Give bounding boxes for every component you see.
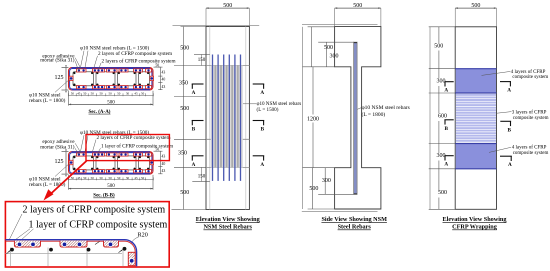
Sec A-A top groove 1 steel rebar dots	[78, 69, 80, 71]
Sec A-A bottom groove 4 steel rebar dots	[120, 86, 122, 88]
svg-text:45: 45	[134, 92, 138, 96]
Sec B-B bottom NSM groove 3 (epoxy mortar)	[107, 170, 118, 173]
elevation view 150 offset dim (top)	[194, 54, 210, 56]
Sec A-A bottom groove 6 steel rebar dots	[147, 86, 149, 88]
Sec B-B cell 3 corner rebars	[118, 156, 120, 158]
svg-text:mortar (Sika 31): mortar (Sika 31)	[40, 144, 75, 151]
side view top width dim 500	[335, 7, 381, 9]
detail zoom box (red) on section B-B	[86, 135, 169, 161]
detail groove 3 NSM rebar(s)	[108, 242, 113, 247]
svg-text:rebars (L = 1800): rebars (L = 1800)	[29, 97, 66, 104]
Sec B-B bottom NSM groove 4 (epoxy mortar)	[119, 170, 128, 173]
svg-text:43: 43	[162, 169, 166, 173]
svg-text:50: 50	[126, 92, 130, 96]
side view bottom dim ticks	[303, 167, 335, 169]
wrap callout leader (lower)	[489, 147, 511, 152]
svg-text:A: A	[260, 90, 264, 96]
svg-text:A: A	[508, 162, 512, 168]
Sec B-B bottom groove 3 steel rebar dots	[108, 170, 110, 172]
svg-text:500: 500	[180, 190, 189, 196]
wrap view CFRP hatched band middle (3 layers)	[456, 94, 496, 96]
Sec A-A bottom NSM groove 3 (epoxy mortar)	[107, 86, 118, 89]
svg-text:500: 500	[223, 3, 232, 9]
svg-text:50: 50	[83, 92, 87, 96]
svg-text:50: 50	[99, 176, 103, 180]
Sec A-A left side NSM groove	[69, 76, 73, 80]
svg-text:(L = 1800): (L = 1800)	[362, 111, 386, 118]
elevation view left dim chain line	[183, 27, 185, 210]
elevation view top width dim 500	[206, 7, 249, 9]
svg-text:A: A	[444, 88, 448, 94]
svg-text:43: 43	[162, 154, 166, 158]
Sec B-B top groove 3 steel rebar dots	[108, 153, 110, 155]
section cut flag A (wrap right, upper)	[500, 81, 511, 83]
svg-text:50: 50	[71, 176, 75, 180]
Sec A-A stirrup cell 1	[73, 72, 94, 86]
Sec A-A bottom NSM groove 1 (epoxy mortar)	[77, 86, 87, 89]
svg-text:500: 500	[180, 46, 189, 52]
wrap callout leader (upper)	[482, 71, 511, 75]
leader line to left side rebar (A-A)	[55, 79, 70, 92]
svg-text:500: 500	[107, 184, 115, 189]
Sec B-B bottom groove 4 steel rebar dots	[120, 170, 122, 172]
elevation view NSM steel rebars (blue, L=1500)	[212, 55, 214, 181]
section cut flag A (wrap left, lower)	[444, 155, 453, 157]
Sec B-B bottom NSM groove 5 (epoxy mortar)	[134, 170, 143, 173]
Sec A-A bottom NSM groove 6 (epoxy mortar)	[146, 86, 152, 89]
Sec B-B bottom NSM groove 1 (epoxy mortar)	[77, 170, 87, 173]
red arrow from zoom box to detail box	[50, 161, 87, 195]
section cut flag B (wrap right)	[500, 120, 511, 122]
svg-text:45: 45	[77, 92, 81, 96]
svg-text:125: 125	[55, 159, 64, 165]
Sec A-A top NSM groove 6 (epoxy mortar)	[146, 69, 152, 72]
elevation view rebar label leader	[243, 103, 256, 105]
section cut flag A (elev right, lower)	[253, 155, 265, 157]
svg-text:composite system: composite system	[513, 151, 549, 156]
Sec A-A bottom groove 5 steel rebar dots	[135, 86, 137, 88]
detail longitudinal rebar dots (black)	[10, 248, 14, 252]
Sec B-B top NSM groove 5 (epoxy mortar)	[134, 153, 143, 156]
Sec A-A top NSM groove 4 (epoxy mortar)	[119, 69, 128, 72]
Sec B-B bottom NSM groove 2 (epoxy mortar)	[93, 170, 105, 173]
detail groove 1 (epoxy filled, hatched)	[14, 241, 40, 247]
Sec A-A bottom NSM groove 2 (epoxy mortar)	[93, 86, 105, 89]
leader lines to top NSM rebars (A-A)	[81, 51, 85, 68]
Sec B-B CFRP outer blue laminate bottom edge	[72, 173, 151, 175]
detail concrete top edge + corner (blue CFRP outer layer)	[5, 240, 136, 267]
Sec A-A stirrup cell 2	[96, 72, 115, 86]
leader line to inner CFRP (B-B)	[98, 148, 101, 153]
svg-text:50: 50	[71, 92, 75, 96]
Sec A-A top NSM groove 2 (epoxy mortar)	[93, 69, 105, 72]
leader lines to top NSM rebars (B-B)	[81, 135, 85, 151]
svg-text:2 layers of CFRP composite sys: 2 layers of CFRP composite system	[98, 50, 172, 57]
detail side groove rebar dot	[129, 259, 134, 264]
side view rebar label leader	[357, 108, 361, 110]
leader lines from epoxy callout (A-A)	[75, 58, 81, 69]
Sec B-B right side NSM groove	[150, 160, 154, 164]
svg-text:A: A	[192, 162, 196, 168]
elevation view CFRP zone boundary lines	[206, 65, 249, 67]
Sec B-B stirrup cell 4	[139, 156, 150, 170]
svg-text:125: 125	[55, 75, 64, 81]
Sec A-A CFRP wrap outline (red)	[69, 68, 154, 91]
wrap view CFRP band upper (4 layers)	[456, 69, 496, 93]
wrap view beam outline	[455, 27, 496, 210]
Sec B-B stirrup cell 1	[73, 156, 94, 170]
svg-text:600: 600	[438, 114, 447, 120]
section cut flag A (elev left, upper)	[192, 83, 204, 85]
side view outer chain line	[302, 27, 304, 209]
svg-text:500: 500	[107, 101, 115, 106]
Sec A-A bottom groove 2 steel rebar dots	[94, 86, 96, 88]
Sec A-A stirrup cell 4	[139, 72, 150, 86]
svg-text:40: 40	[162, 78, 166, 82]
leader line to inner CFRP (A-A)	[99, 63, 102, 69]
detail groove 1 NSM rebar(s)	[17, 242, 22, 247]
svg-text:50: 50	[83, 176, 87, 180]
Sec B-B bottom small dim tick row	[69, 179, 154, 181]
svg-text:50: 50	[91, 176, 95, 180]
svg-text:R20: R20	[138, 232, 148, 239]
svg-text:4 layers of CFRP: 4 layers of CFRP	[511, 70, 546, 75]
wrap callout leader (middle)	[496, 112, 512, 114]
side view beam outline (stepped I shape)	[335, 27, 381, 209]
Sec B-B top groove 5 steel rebar dots	[135, 153, 137, 155]
svg-text:4 layers of CFRP: 4 layers of CFRP	[512, 146, 547, 151]
svg-text:Elevation View Showing: Elevation View Showing	[196, 216, 261, 223]
svg-text:50: 50	[117, 176, 121, 180]
Sec A-A bottom groove 3 steel rebar dots	[108, 86, 110, 88]
detail groove 2 (epoxy filled, hatched)	[60, 241, 87, 247]
svg-text:B: B	[261, 127, 265, 133]
side view bottom extended tick	[302, 210, 378, 212]
section cut flag B (elev left)	[192, 120, 204, 122]
side view top dim verticals	[311, 27, 313, 67]
elevation view beam inner edge lines	[209, 27, 211, 210]
Sec A-A stirrup cell 3	[118, 72, 137, 86]
Sec A-A cell 3 corner rebars	[118, 72, 120, 74]
svg-text:1 layer of CFRP composite syst: 1 layer of CFRP composite system	[29, 220, 168, 231]
elevation view 150 offset dim (bottom)	[192, 180, 210, 182]
Sec B-B bottom groove 5 steel rebar dots	[135, 170, 137, 172]
detail R20 leader	[132, 237, 139, 243]
side view 1200 dim line	[312, 67, 314, 115]
Sec B-B top groove 2 steel rebar dots	[94, 153, 96, 155]
Sec B-B bottom groove 6 steel rebar dots	[147, 170, 149, 172]
Sec A-A CFRP outer blue laminate top edge	[72, 67, 151, 69]
Sec A-A top groove 2 steel rebar dots	[94, 69, 96, 71]
svg-text:B: B	[444, 126, 448, 132]
Sec A-A top groove 6 steel rebar dots	[147, 69, 149, 71]
Sec B-B cell 2 corner rebars	[96, 156, 98, 158]
svg-text:Side View Showing NSM: Side View Showing NSM	[321, 216, 387, 223]
Sec B-B top NSM groove 1 (epoxy mortar)	[77, 153, 87, 156]
Sec A-A right side dim chain 43/40/43	[159, 67, 161, 90]
side view NSM steel rebar (L=1800)	[354, 42, 358, 194]
Sec B-B top NSM groove 3 (epoxy mortar)	[107, 153, 118, 156]
svg-text:1 layer of CFRP composite syst: 1 layer of CFRP composite system	[101, 143, 173, 150]
Sec A-A top groove 4 steel rebar dots	[120, 69, 122, 71]
svg-text:A: A	[192, 90, 196, 96]
svg-text:500: 500	[324, 45, 333, 51]
svg-text:Steel Rebars: Steel Rebars	[338, 224, 372, 231]
svg-text:A: A	[444, 162, 448, 168]
svg-text:500: 500	[438, 190, 447, 196]
leader line to left side rebar (B-B)	[55, 163, 70, 176]
Sec A-A cell 4 corner rebars	[139, 72, 141, 74]
section cut flag B (elev right)	[253, 120, 265, 122]
svg-text:B: B	[192, 127, 196, 133]
svg-text:50: 50	[99, 92, 103, 96]
svg-text:NSM Steel Rebars: NSM Steel Rebars	[203, 224, 252, 231]
Sec B-B bottom groove 1 steel rebar dots	[78, 170, 80, 172]
side view top extended tick	[302, 23, 378, 25]
Sec A-A bottom NSM groove 5 (epoxy mortar)	[134, 86, 143, 89]
elevation view beam outline	[206, 27, 249, 210]
detail small arrows at corner bars	[7, 250, 11, 253]
svg-text:2 layers of CFRP composite sys: 2 layers of CFRP composite system	[102, 57, 176, 64]
Sec B-B cell 1 corner rebars	[73, 156, 75, 158]
svg-text:50: 50	[91, 92, 95, 96]
detail leader lines for CFRP layers	[10, 214, 23, 239]
svg-text:150: 150	[198, 58, 206, 63]
svg-text:A: A	[260, 162, 264, 168]
wrap view outer chain line	[429, 27, 431, 210]
wrap view dim ticks	[429, 26, 456, 28]
Sec B-B bottom groove 2 steel rebar dots	[94, 170, 96, 172]
svg-text:2 layers of CFRP composite sys: 2 layers of CFRP composite system	[23, 205, 166, 216]
Sec A-A bottom small dim tick row	[69, 95, 154, 97]
svg-text:300: 300	[322, 178, 331, 184]
svg-text:composite system: composite system	[513, 116, 549, 121]
Sec B-B top groove 6 steel rebar dots	[147, 153, 149, 155]
elevation view top extended tick	[173, 24, 260, 26]
svg-text:50: 50	[109, 92, 113, 96]
svg-text:43: 43	[162, 85, 166, 89]
detail stirrup lines (grey)	[10, 248, 12, 267]
svg-text:500: 500	[309, 186, 318, 192]
svg-text:(L = 1500): (L = 1500)	[257, 106, 279, 113]
wrap view CFRP band lower (4 layers)	[456, 144, 496, 169]
detail concrete top edge + corner (red CFRP inner layer)	[5, 241, 135, 266]
Sec A-A cell 2 corner rebars	[96, 72, 98, 74]
elevation view far-face steel rebars (grey, L=1800)	[211, 66, 243, 168]
svg-text:43: 43	[162, 70, 166, 74]
section cut flag A (elev left, lower)	[192, 155, 204, 157]
leader lines from epoxy callout (B-B)	[75, 143, 81, 153]
Sec A-A CFRP inner layer (blue)	[70, 69, 152, 90]
section cut flag A (elev right, upper)	[253, 83, 265, 85]
wrap view top width dim 500	[455, 7, 496, 9]
elevation view left dim ticks	[181, 26, 207, 28]
Sec A-A top groove 5 steel rebar dots	[135, 69, 137, 71]
Sec B-B left side NSM groove	[69, 160, 73, 164]
Sec B-B right side dim chain 43/40/43	[159, 151, 161, 174]
Sec A-A top NSM groove 5 (epoxy mortar)	[134, 69, 143, 72]
wrap view left dim chain line	[438, 27, 440, 43]
Sec B-B top NSM groove 4 (epoxy mortar)	[119, 153, 128, 156]
Sec B-B CFRP inner layer (blue)	[70, 153, 152, 174]
Sec A-A top groove 3 steel rebar dots	[108, 69, 110, 71]
Sec A-A cell 1 corner rebars	[73, 72, 75, 74]
svg-text:3 layers of CFRP: 3 layers of CFRP	[512, 110, 547, 115]
Sec A-A bottom extension lines	[68, 91, 70, 106]
Sec A-A right side rebar dot	[151, 77, 154, 80]
Sec A-A left side rebar dot	[70, 77, 73, 80]
Sec A-A overall width dim 500	[69, 103, 154, 105]
svg-text:Sec. (B-B): Sec. (B-B)	[93, 194, 115, 199]
Sec B-B bottom NSM groove 6 (epoxy mortar)	[146, 170, 152, 173]
Sec B-B top groove 1 steel rebar dots	[78, 153, 80, 155]
side view top dim ticks	[308, 26, 335, 28]
svg-text:50: 50	[117, 92, 121, 96]
Sec A-A CFRP outer blue laminate bottom edge	[72, 89, 151, 91]
svg-text:300: 300	[437, 79, 446, 85]
svg-text:50: 50	[141, 176, 145, 180]
section cut flag A (wrap right, lower)	[500, 155, 512, 157]
Sec B-B cell 4 corner rebars	[139, 156, 141, 158]
svg-text:350: 350	[178, 151, 187, 157]
detail side groove (epoxy filled, hatched)	[128, 252, 135, 265]
svg-text:A: A	[507, 88, 511, 94]
Sec A-A top NSM groove 3 (epoxy mortar)	[107, 69, 118, 72]
Sec B-B top NSM groove 6 (epoxy mortar)	[146, 153, 152, 156]
leader line to outer CFRP (A-A)	[94, 56, 98, 68]
svg-text:45: 45	[77, 176, 81, 180]
Sec B-B stirrup cell 3	[118, 156, 137, 170]
side view bottom dim verticals	[312, 168, 314, 209]
Sec B-B depth dimension 125	[65, 152, 67, 175]
svg-text:500: 500	[353, 3, 362, 9]
svg-text:φ10 NSM steel rebars: φ10 NSM steel rebars	[362, 105, 410, 111]
Sec B-B left side rebar dot	[70, 161, 73, 164]
svg-text:40: 40	[162, 162, 166, 166]
Sec B-B CFRP outer blue laminate top edge	[72, 151, 151, 153]
svg-text:500: 500	[471, 3, 480, 9]
Sec A-A depth dimension 125	[65, 68, 67, 91]
Sec A-A bottom groove 1 steel rebar dots	[78, 86, 80, 88]
leader line to outer CFRP (B-B)	[93, 140, 97, 152]
svg-text:500: 500	[434, 43, 443, 49]
svg-text:50: 50	[141, 92, 145, 96]
Sec B-B top groove 4 steel rebar dots	[120, 153, 122, 155]
svg-text:Sec. (A-A): Sec. (A-A)	[89, 110, 111, 115]
svg-text:B: B	[507, 127, 511, 133]
Sec B-B top NSM groove 2 (epoxy mortar)	[93, 153, 105, 156]
Sec B-B overall width dim 500	[69, 188, 154, 190]
svg-text:Elevation View Showing: Elevation View Showing	[443, 216, 508, 223]
svg-text:500: 500	[180, 106, 189, 112]
svg-text:1200: 1200	[307, 116, 319, 122]
section cut flag A (wrap left, upper)	[444, 81, 453, 83]
svg-text:300: 300	[437, 153, 446, 159]
svg-text:150: 150	[198, 174, 206, 179]
Sec A-A top NSM groove 1 (epoxy mortar)	[77, 69, 87, 72]
svg-text:50: 50	[109, 176, 113, 180]
detail groove 2 NSM rebar(s)	[62, 242, 67, 247]
detail groove 3 (epoxy filled, hatched)	[104, 241, 119, 247]
svg-text:mortar (Sika 31): mortar (Sika 31)	[40, 57, 75, 64]
Sec B-B bottom extension lines	[68, 175, 70, 190]
svg-text:45: 45	[134, 176, 138, 180]
svg-text:350: 350	[179, 81, 188, 87]
Sec A-A right side NSM groove	[150, 76, 154, 80]
Sec A-A bottom NSM groove 4 (epoxy mortar)	[119, 86, 128, 89]
Sec B-B stirrup cell 2	[96, 156, 115, 170]
Sec B-B right side rebar dot	[151, 161, 154, 164]
section cut flag B (wrap left)	[444, 119, 453, 121]
detail box border (red)	[5, 202, 169, 267]
svg-text:CFRP Wrapping: CFRP Wrapping	[452, 224, 498, 231]
svg-text:300: 300	[330, 54, 339, 60]
svg-text:composite system: composite system	[512, 75, 548, 80]
svg-text:50: 50	[126, 176, 130, 180]
Sec B-B CFRP wrap outline (red)	[69, 152, 154, 175]
